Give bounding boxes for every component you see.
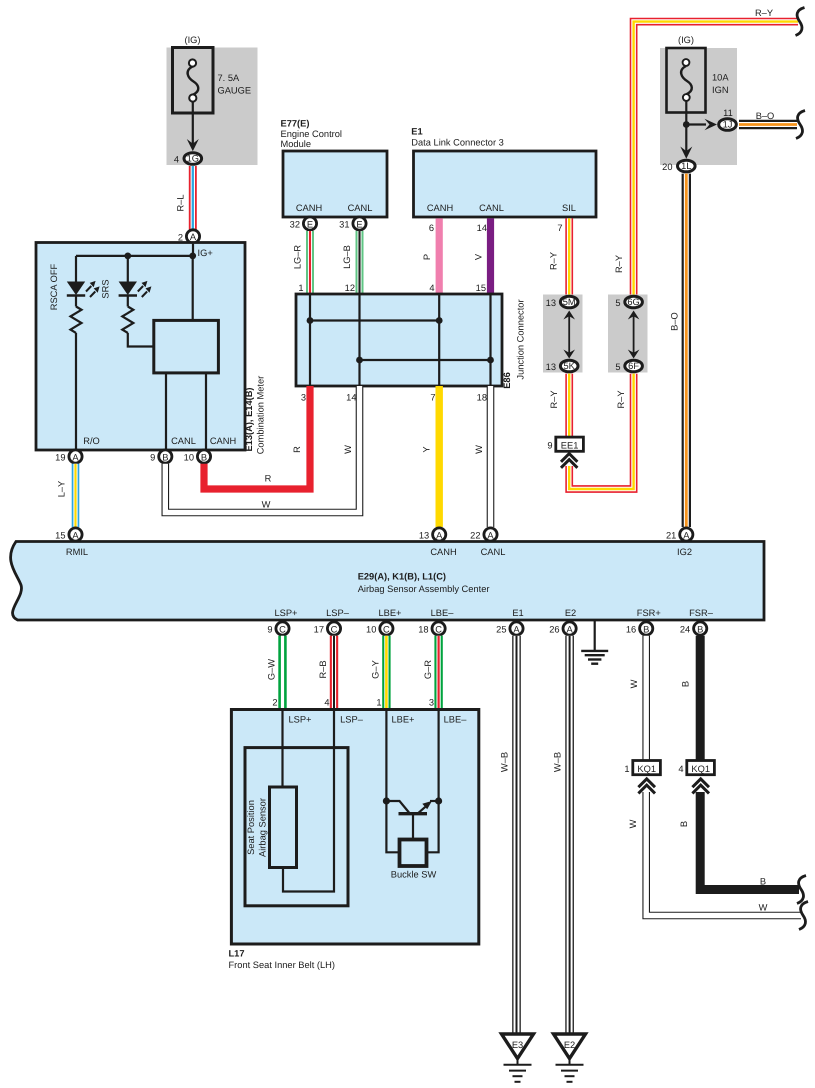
svg-text:R–Y: R–Y [755, 8, 773, 18]
junction dot IG+ [189, 253, 196, 260]
terminal 18(C) [432, 622, 445, 635]
svg-text:SIL: SIL [562, 203, 576, 213]
svg-text:1J: 1J [723, 120, 733, 130]
svg-text:Airbag Sensor: Airbag Sensor [258, 798, 268, 857]
wire B KQ1 to torn end [700, 792, 799, 890]
LED RSCA OFF [67, 282, 85, 296]
terminal 16(B) [640, 622, 653, 635]
wire R-Y SIL to 5M [565, 218, 573, 295]
svg-text:B: B [201, 452, 207, 462]
svg-text:6: 6 [429, 223, 434, 233]
svg-text:Front Seat Inner Belt (LH): Front Seat Inner Belt (LH) [229, 960, 335, 970]
svg-text:CANL: CANL [348, 203, 373, 213]
wire pin2 to sensor [281, 710, 283, 787]
svg-text:G–R: G–R [423, 660, 433, 679]
wire LED to resistor SRS [127, 296, 129, 307]
torn end B-O [796, 111, 805, 139]
fuse F 7.5A GAUGE body [173, 48, 214, 114]
svg-text:22: 22 [470, 531, 480, 541]
wire V E1 CANL to E86 pin15 [487, 218, 494, 295]
svg-text:W–B: W–B [500, 752, 510, 772]
svg-text:16: 16 [626, 625, 636, 635]
sensor element rect [270, 787, 297, 868]
svg-text:12: 12 [345, 283, 355, 293]
wire W 16B to KQ1 [642, 636, 650, 761]
svg-text:LSP+: LSP+ [274, 608, 297, 618]
svg-text:13: 13 [419, 531, 429, 541]
svg-text:CANL: CANL [481, 547, 506, 557]
svg-text:RSCA OFF: RSCA OFF [49, 263, 59, 310]
svg-text:E13(A), E14(B): E13(A), E14(B) [244, 387, 254, 451]
connector oval 6F [625, 360, 643, 372]
connector oval 1G [184, 153, 202, 165]
wire LED to resistor RSCA [75, 296, 77, 307]
chevron below EE1 [561, 454, 577, 468]
svg-text:W: W [629, 679, 639, 688]
svg-text:E86: E86 [502, 372, 512, 389]
E86 internal column 3 [438, 294, 440, 386]
terminal 15(A) RMIL [69, 528, 82, 541]
wire to SRS LED [127, 256, 129, 282]
transistor base line [412, 814, 414, 840]
E86 internal column 2 [358, 294, 360, 386]
E86 internal column 1 [309, 294, 311, 386]
fuse block 10A IGN shading [660, 48, 737, 165]
svg-text:R–B: R–B [318, 660, 328, 678]
ground symbol E3 [504, 1064, 532, 1066]
wire G-Y 10C to L17 pin1 [382, 636, 390, 710]
svg-text:1: 1 [298, 283, 303, 293]
wire transistor right to box [427, 801, 439, 852]
terminal 26(A) [563, 622, 576, 635]
junction connector E86 box [296, 294, 502, 386]
terminal 21(A) IG2 [680, 528, 693, 541]
svg-text:W: W [343, 445, 353, 454]
svg-text:14: 14 [346, 393, 356, 403]
svg-text:6F: 6F [628, 361, 639, 371]
svg-text:R: R [265, 474, 272, 484]
chevron below KQ1 left [638, 779, 655, 794]
svg-text:E29(A), K1(B), L1(C): E29(A), K1(B), L1(C) [358, 572, 446, 582]
ground triangle E3 [502, 1034, 534, 1059]
arrow into 1G [187, 139, 199, 151]
svg-text:13: 13 [546, 298, 556, 308]
svg-text:4: 4 [174, 155, 179, 165]
svg-text:5: 5 [615, 298, 620, 308]
torn end R-Y top [796, 8, 805, 36]
svg-text:21: 21 [666, 531, 676, 541]
svg-text:W–B: W–B [553, 752, 563, 772]
terminal 31(E) [353, 217, 366, 230]
terminal 13(A) CANH [433, 528, 446, 541]
wire R-B 17C to L17 pin4 [330, 636, 338, 710]
svg-text:R/O: R/O [83, 436, 100, 446]
svg-text:Combination Meter: Combination Meter [256, 376, 266, 455]
svg-text:RMIL: RMIL [66, 547, 88, 557]
wire W 9B to E86 pin14 [165, 386, 359, 513]
svg-text:1G: 1G [187, 154, 199, 164]
svg-text:SRS: SRS [101, 279, 111, 298]
svg-text:15: 15 [476, 283, 486, 293]
wire LG-B 31E to E86 pin12 [356, 231, 364, 295]
svg-text:KQ1: KQ1 [637, 764, 656, 774]
svg-text:L17: L17 [229, 949, 245, 959]
svg-text:31: 31 [339, 220, 349, 230]
terminal 17(C) [327, 622, 340, 635]
svg-text:LBE+: LBE+ [378, 608, 401, 618]
svg-text:FSR–: FSR– [689, 608, 714, 618]
wire pin1 to transistor [385, 710, 387, 801]
fuse terminal top circle [189, 59, 196, 66]
svg-text:V: V [474, 253, 484, 260]
wire W-B 25A to E3 ground [512, 636, 521, 1034]
svg-text:R–Y: R–Y [614, 255, 624, 273]
wire R-L from 1G to 2A [189, 166, 197, 230]
svg-text:5: 5 [615, 362, 620, 372]
svg-text:7. 5A: 7. 5A [218, 73, 241, 83]
svg-text:G–Y: G–Y [371, 660, 381, 679]
svg-text:L–Y: L–Y [57, 481, 67, 498]
wire to RSCA LED [75, 256, 77, 282]
wire B-O from 1L to 21A [682, 174, 691, 527]
svg-text:15: 15 [55, 531, 65, 541]
fuse block 7.5A GAUGE shading [167, 48, 258, 166]
wire W-B 26A to E2 ground [565, 636, 574, 1034]
wire IG+ down to sub box [192, 256, 194, 321]
svg-text:A: A [683, 530, 690, 540]
wire P E1 CANH to E86 pin4 [436, 218, 443, 295]
svg-text:20: 20 [662, 162, 672, 172]
svg-text:EE1: EE1 [561, 441, 579, 451]
fuse element squiggle [188, 67, 199, 95]
wire G-R 18C to L17 pin3 [434, 636, 442, 710]
svg-text:E2: E2 [565, 608, 576, 618]
svg-text:IGN: IGN [712, 85, 729, 95]
svg-text:2: 2 [178, 233, 183, 243]
svg-text:G–W: G–W [267, 659, 277, 680]
svg-text:W: W [628, 819, 638, 828]
fuse F 10A IGN body [667, 48, 706, 113]
svg-text:5K: 5K [564, 361, 576, 371]
svg-text:R–Y: R–Y [616, 390, 626, 408]
svg-text:14: 14 [477, 223, 487, 233]
svg-text:B: B [162, 452, 168, 462]
svg-text:10A: 10A [712, 73, 729, 83]
ECM E77(E) box [283, 151, 387, 217]
svg-text:9: 9 [547, 441, 552, 451]
svg-text:9: 9 [150, 453, 155, 463]
svg-text:4: 4 [324, 698, 329, 708]
svg-text:3: 3 [429, 698, 434, 708]
svg-text:LSP+: LSP+ [288, 715, 311, 725]
svg-text:E: E [307, 219, 313, 229]
svg-text:A: A [190, 232, 197, 242]
LED RSCA light arrows [86, 286, 95, 297]
svg-text:IG+: IG+ [198, 248, 213, 258]
svg-text:1: 1 [376, 698, 381, 708]
wire transistor left to box [386, 801, 399, 852]
svg-text:A: A [487, 530, 494, 540]
svg-text:R–L: R–L [176, 194, 186, 211]
svg-text:B–O: B–O [756, 111, 775, 121]
svg-text:KQ1: KQ1 [691, 764, 710, 774]
airbag sensor assembly center band [11, 542, 764, 621]
wire sub box to CANL terminal [165, 373, 167, 449]
svg-text:W: W [262, 500, 271, 510]
svg-text:10: 10 [184, 453, 194, 463]
svg-text:13: 13 [546, 362, 556, 372]
svg-text:CANL: CANL [479, 203, 504, 213]
terminal 24(B) [694, 622, 707, 635]
svg-text:W: W [759, 903, 768, 913]
wire G-W 9C to L17 pin2 [278, 636, 286, 710]
svg-text:3: 3 [301, 393, 306, 403]
junction block 6G/6F shading [608, 295, 648, 373]
wire R-Y from 6G up and across top [634, 22, 798, 295]
svg-text:Data Link Connector 3: Data Link Connector 3 [411, 138, 504, 148]
arrow into 1J [705, 119, 718, 131]
svg-text:LG–B: LG–B [342, 245, 352, 269]
LED SRS light arrows [138, 286, 147, 297]
svg-text:E: E [356, 219, 362, 229]
svg-text:32: 32 [290, 220, 300, 230]
svg-text:C: C [435, 624, 442, 634]
svg-text:E1: E1 [512, 608, 523, 618]
splice KQ1 left [633, 761, 661, 775]
svg-text:CANL: CANL [171, 436, 196, 446]
svg-text:18: 18 [477, 393, 487, 403]
torn end B [797, 876, 806, 904]
junction dot right fuse [683, 121, 690, 128]
svg-text:IG2: IG2 [677, 547, 692, 557]
svg-text:24: 24 [680, 625, 690, 635]
svg-text:9: 9 [267, 625, 272, 635]
chevron below KQ1 right [692, 779, 709, 794]
ground symbol band [581, 650, 608, 652]
DLC3 E1 box [414, 151, 597, 217]
svg-text:LSP–: LSP– [340, 715, 364, 725]
svg-text:R: R [292, 446, 302, 453]
LED SRS [119, 282, 137, 296]
seat position sensor outer box [245, 748, 348, 906]
svg-text:Airbag Sensor Assembly Center: Airbag Sensor Assembly Center [358, 584, 490, 594]
svg-text:19: 19 [55, 453, 65, 463]
terminal 22(A) CANL [484, 528, 497, 541]
svg-text:FSR+: FSR+ [637, 608, 661, 618]
wire pin3 to transistor [438, 710, 440, 801]
svg-text:7: 7 [557, 223, 562, 233]
connector oval 5M [560, 296, 578, 308]
svg-text:LBE–: LBE– [444, 715, 468, 725]
terminal 19(A) [69, 450, 82, 463]
connector oval 1L [678, 160, 696, 172]
svg-text:E1: E1 [411, 127, 422, 137]
wire R-Y EE1 to 6F [569, 374, 633, 489]
splice EE1 [556, 437, 584, 451]
svg-text:C: C [279, 624, 286, 634]
E86 internal column 4 [489, 294, 491, 386]
svg-text:B: B [681, 681, 691, 687]
wire B 24B to KQ1 [696, 636, 705, 761]
ground triangle E2 [554, 1034, 586, 1059]
wire sensor to pin4 [283, 710, 334, 892]
wire LG-R 32E to E86 pin1 [306, 231, 314, 295]
svg-text:4: 4 [678, 764, 683, 774]
svg-text:4: 4 [429, 283, 434, 293]
svg-text:11: 11 [723, 108, 733, 118]
connector oval 1J [719, 119, 737, 131]
resistor RSCA zigzag [71, 307, 82, 333]
svg-text:2: 2 [272, 698, 277, 708]
svg-text:P: P [422, 254, 432, 260]
svg-text:Y: Y [422, 446, 432, 452]
wire L-Y 19A to 15A [72, 464, 80, 527]
wire B-O from 1J to right [739, 120, 797, 129]
junction dot SRS branch [124, 253, 131, 260]
svg-text:5M: 5M [563, 297, 576, 307]
svg-text:Engine Control: Engine Control [281, 129, 343, 139]
wire sub box to CANH terminal [205, 373, 207, 449]
svg-text:LSP–: LSP– [326, 608, 350, 618]
svg-text:A: A [513, 624, 520, 634]
wire W E86 pin18 to 22A [487, 386, 495, 527]
svg-text:Junction Connector: Junction Connector [516, 299, 526, 379]
svg-text:B: B [760, 877, 766, 887]
svg-text:CANH: CANH [296, 203, 322, 213]
svg-text:E3: E3 [512, 1040, 523, 1050]
svg-text:25: 25 [496, 625, 506, 635]
double arrow 5M-5K [568, 313, 570, 356]
terminal 10(C) [380, 622, 393, 635]
svg-text:B: B [697, 624, 703, 634]
wire W KQ1 to torn end [646, 792, 801, 916]
transistor buckle SW [383, 797, 390, 804]
svg-text:GAUGE: GAUGE [218, 86, 252, 96]
svg-text:CANH: CANH [427, 203, 453, 213]
terminal 32(E) [303, 217, 316, 230]
svg-text:1: 1 [624, 764, 629, 774]
svg-text:A: A [72, 530, 79, 540]
wire fuse to 1G [192, 102, 194, 145]
buckle SW box [400, 840, 427, 867]
svg-text:C: C [331, 624, 338, 634]
wire SRS resistor to sub box [128, 333, 154, 347]
wire R-Y 5K to EE1 [565, 374, 573, 437]
splice KQ1 right [687, 761, 715, 775]
wire Y E86 pin7 to 13A [436, 386, 443, 527]
svg-text:R–Y: R–Y [549, 390, 559, 408]
svg-text:Seat Position: Seat Position [246, 800, 256, 855]
arrow into 1L [680, 147, 692, 159]
svg-text:CANH: CANH [430, 547, 456, 557]
svg-text:18: 18 [418, 625, 428, 635]
svg-text:Buckle SW: Buckle SW [391, 870, 437, 880]
svg-text:A: A [72, 452, 79, 462]
svg-text:E2: E2 [564, 1040, 575, 1050]
wire R thick 10B to E86 pin3 [204, 386, 310, 489]
wire RSCA resistor to R/O terminal [75, 333, 77, 449]
ground symbol E2 [556, 1064, 584, 1066]
svg-text:26: 26 [549, 625, 559, 635]
wire fuse to junction [685, 101, 687, 151]
terminal 10(B) [197, 450, 210, 463]
svg-text:LG–R: LG–R [293, 245, 303, 270]
svg-text:E77(E): E77(E) [281, 119, 310, 129]
svg-text:A: A [566, 624, 573, 634]
svg-text:7: 7 [430, 393, 435, 403]
terminal 9(C) [276, 622, 289, 635]
double arrow 6G-6F [633, 313, 635, 356]
connector oval 5K [560, 360, 578, 372]
terminal 9(B) [159, 450, 172, 463]
fuse element squiggle right [681, 66, 692, 94]
svg-text:(IG): (IG) [678, 35, 694, 45]
svg-text:Module: Module [281, 139, 312, 149]
node 2(A) [186, 230, 199, 243]
svg-text:B: B [679, 821, 689, 827]
svg-text:A: A [436, 530, 443, 540]
svg-text:LBE+: LBE+ [391, 715, 414, 725]
combination meter E13(A) E14(B) box [36, 243, 245, 451]
svg-text:R–Y: R–Y [549, 252, 559, 270]
connector oval 6G [625, 296, 643, 308]
ground stem from band [594, 620, 596, 651]
svg-text:LBE–: LBE– [431, 608, 455, 618]
resistor SRS zigzag [122, 307, 133, 333]
E86 CANH bus [310, 319, 439, 321]
wire IG+ horizontal [76, 255, 193, 257]
svg-text:B–O: B–O [670, 312, 680, 331]
terminal 25(A) [510, 622, 523, 635]
svg-text:W: W [474, 445, 484, 454]
torn end W [799, 902, 808, 930]
wire 2A to IG+ [192, 244, 194, 256]
fuse terminal bottom circle [189, 94, 196, 101]
svg-text:10: 10 [366, 625, 376, 635]
front seat inner belt L17 box [231, 710, 478, 945]
junction block 5M/5K shading [543, 295, 583, 373]
svg-text:1L: 1L [681, 161, 691, 171]
svg-text:C: C [383, 624, 390, 634]
svg-text:B: B [643, 624, 649, 634]
meter internal sub box [154, 320, 219, 373]
wire branch to 1J [686, 123, 706, 125]
svg-text:17: 17 [314, 625, 324, 635]
svg-text:6G: 6G [627, 297, 639, 307]
E86 CANL bus [360, 359, 491, 361]
svg-text:(IG): (IG) [184, 35, 200, 45]
svg-text:CANH: CANH [210, 436, 236, 446]
